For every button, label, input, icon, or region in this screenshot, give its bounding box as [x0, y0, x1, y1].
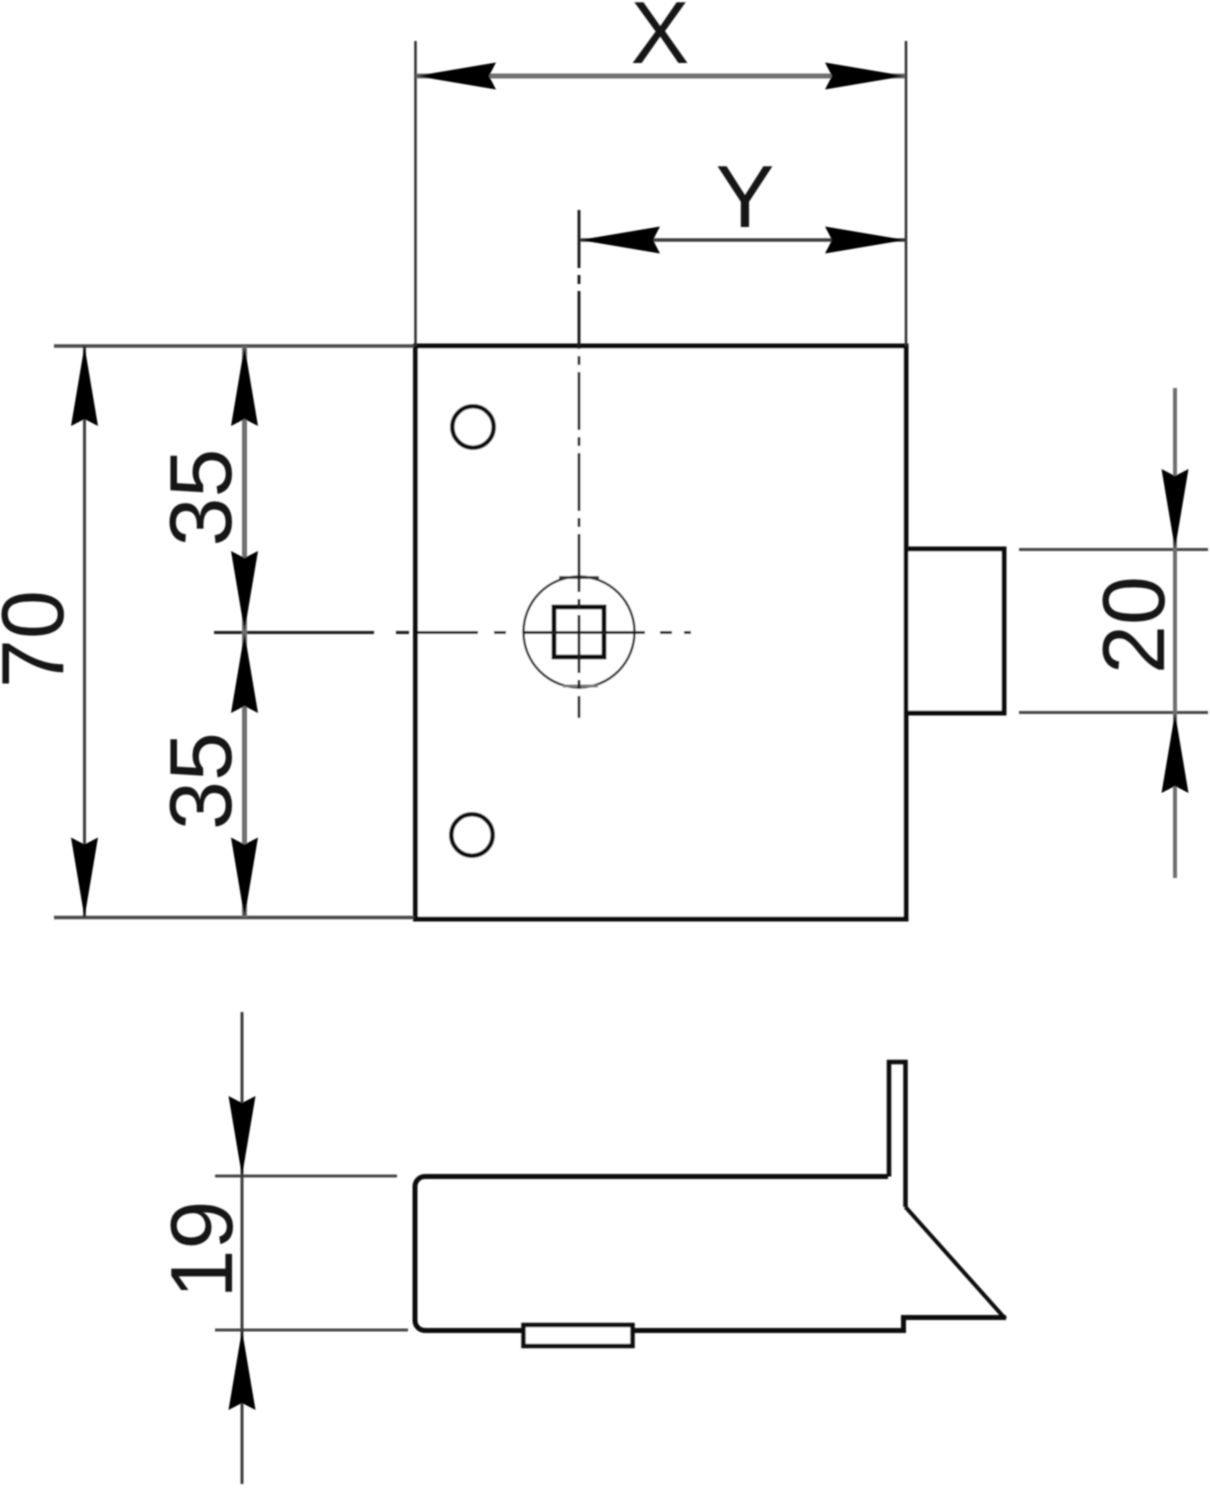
arrow 35 upper bottom [231, 551, 258, 631]
dimension line 20 [1173, 388, 1177, 878]
spindle square hole [554, 607, 604, 657]
svg-text:35: 35 [151, 449, 250, 547]
extension line top (70/35 dims) [54, 344, 414, 348]
arrow 35 lower top [231, 633, 258, 713]
arrow 20 top [1162, 469, 1189, 549]
extension line 20 bottom [1019, 711, 1208, 714]
svg-text:Y: Y [716, 147, 775, 246]
side view: latch bevel diagonal [906, 1207, 1006, 1319]
extension line 20 top [1019, 548, 1208, 551]
arrow X left [416, 63, 496, 90]
arrow X right [825, 63, 905, 90]
arrow Y right [825, 227, 905, 254]
horizontal center line [214, 631, 691, 634]
dimension line 35 (upper+lower) [242, 346, 247, 918]
dimension line X [416, 74, 905, 79]
arrow 19 bottom [229, 1330, 256, 1410]
side view: case outline with latch bottom [415, 1177, 1006, 1331]
arrow 35 upper top [231, 346, 258, 426]
dimension line Y [580, 238, 905, 242]
spindle circle [524, 577, 635, 688]
side view: faceplate [889, 1062, 906, 1207]
dimension line 70 [83, 346, 86, 918]
latch bolt (front view) [906, 549, 1004, 713]
side view: bottom tab [524, 1325, 633, 1346]
arrow 35 lower bottom [231, 838, 258, 918]
arrow 70 top [71, 346, 98, 426]
arrow 20 bottom [1162, 713, 1189, 793]
extension line bottom (70/35 dims) [54, 916, 414, 920]
extension line 19 bottom [215, 1329, 408, 1332]
lock case body (front view) [416, 346, 907, 919]
arrow Y left [580, 227, 660, 254]
extension line 19 top [215, 1175, 397, 1178]
svg-text:20: 20 [1084, 576, 1183, 674]
screw hole upper [452, 406, 493, 447]
extension line left (X dim) [414, 41, 417, 346]
arrow 70 bottom [71, 838, 98, 918]
spindle circle flat tick bottom [563, 685, 598, 688]
svg-text:70: 70 [0, 590, 82, 688]
svg-text:19: 19 [152, 1201, 251, 1299]
svg-text:35: 35 [151, 732, 250, 830]
dimension line 19 [241, 1012, 244, 1484]
svg-text:X: X [631, 0, 690, 82]
spindle circle flat tick top [559, 576, 599, 579]
arrow 19 top [229, 1096, 256, 1176]
vertical center line [578, 210, 581, 718]
extension line right (X/Y dim) [905, 41, 908, 346]
screw hole lower [451, 814, 492, 855]
